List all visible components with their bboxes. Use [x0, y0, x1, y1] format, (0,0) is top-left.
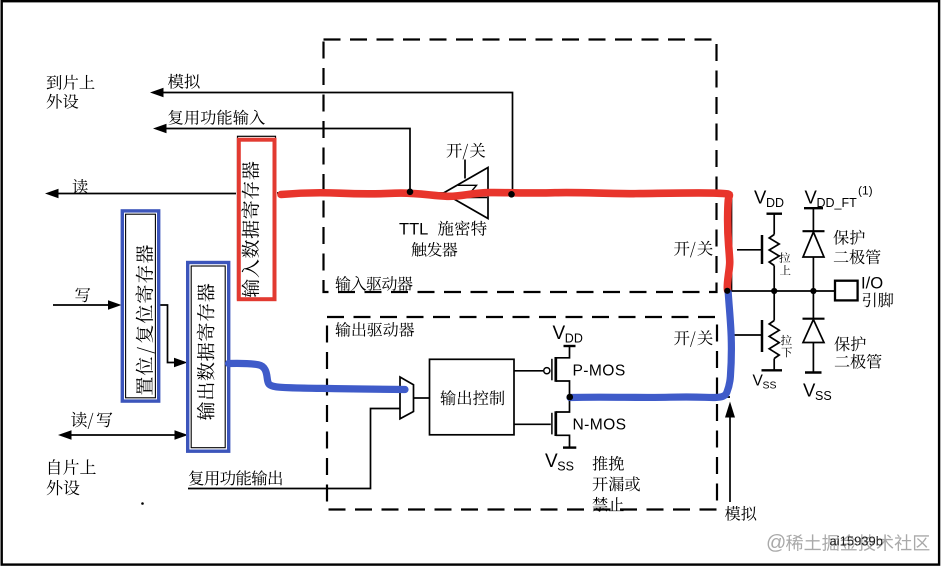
wire alternate function input 复用功能输入 [153, 124, 410, 192]
wire mos drains to pad [570, 396, 730, 398]
watermark 稀土掘金技术社区 [766, 532, 929, 554]
transistor N-MOS [552, 397, 576, 448]
label 到片上外设 [47, 75, 95, 109]
label I/O 引脚 [861, 274, 893, 308]
label 开/关 (trigger switch) [447, 143, 486, 160]
svg-text:DD_FT: DD_FT [817, 196, 858, 210]
blue highlight marker output path (mos to pad) [570, 293, 731, 398]
svg-text:SS: SS [763, 380, 777, 392]
stray dot [141, 502, 144, 505]
node pad junction (red/blue meet) [724, 288, 730, 294]
label 读/写 [71, 412, 112, 429]
label VSS (pull-down) [753, 373, 777, 392]
I/O pin pad square [835, 281, 858, 301]
label 开/关 (pull-down switch) [674, 330, 713, 347]
node AF-input tap junction [407, 189, 414, 196]
output driver dashed box 输出驱动器 [327, 317, 717, 510]
protection diode D1 (to VDD_FT) [803, 208, 825, 291]
transistor P-MOS [544, 346, 576, 397]
wire write 写 [53, 300, 122, 310]
input main wire pad to schmitt to register [277, 193, 732, 291]
label 开/关 (pull-up switch) [674, 241, 713, 258]
label VSS (lower diode) [803, 380, 832, 404]
label 保护二极管 (lower) [834, 336, 881, 369]
wire alternate function output 复用功能输出 [188, 409, 400, 489]
wire output control to P-MOS gate [514, 370, 543, 372]
svg-text:DD: DD [565, 332, 583, 346]
label 保护二极管 (upper) [833, 230, 880, 265]
label 拉上 [779, 252, 790, 274]
label 输出驱动器 [335, 322, 414, 337]
label 复用功能输入 [168, 110, 265, 125]
svg-text:I/O: I/O [861, 274, 883, 293]
label VDD (P-MOS) [553, 323, 583, 346]
label VDD (pull-up) [754, 187, 784, 211]
pull-down resistor with switch 拉下 [731, 291, 782, 370]
node diode junction [810, 288, 816, 294]
label 读 [73, 179, 88, 194]
wire analog bottom 模拟 with up arrow [725, 402, 735, 503]
svg-text:ai15939b: ai15939b [830, 534, 884, 549]
label VDD_FT (1) [805, 184, 873, 211]
wire analog-out to peripherals 模拟 [150, 88, 513, 192]
label TTL 施密特触发器 [399, 221, 487, 257]
svg-text:P-MOS: P-MOS [573, 363, 626, 380]
input driver dashed box 输入驱动器 [324, 40, 717, 293]
label 写 [75, 288, 90, 303]
TTL schmitt trigger U1 [444, 160, 489, 219]
pull-up resistor with switch 拉上 [737, 214, 782, 291]
label VSS (N-MOS) [545, 451, 574, 474]
wire read 读 [45, 189, 236, 199]
svg-text:@: @ [766, 532, 786, 554]
wire read/write 读/写 [58, 430, 188, 440]
red highlight marker input path [281, 193, 730, 291]
label 模拟 (top) [168, 74, 200, 89]
label 输入驱动器 [335, 276, 412, 291]
label 自片上外设 [47, 459, 96, 495]
wire pad line to I/O pin [727, 290, 835, 292]
register box 置位/复位寄存器 (bit set/reset register) [122, 211, 158, 401]
label 输出控制 [440, 390, 504, 405]
svg-text:V: V [545, 451, 558, 472]
protection diode D2 (to VSS) [803, 291, 825, 373]
wire mux to output control [414, 397, 430, 399]
label 模拟 (bottom) [725, 506, 756, 521]
svg-text:DD: DD [766, 196, 784, 210]
wire output control to N-MOS gate [514, 423, 551, 425]
wire bit-set-reset to output register [160, 305, 188, 367]
blue highlight marker output path (register to mux) [229, 363, 406, 389]
node mos drain junction [567, 394, 574, 401]
svg-text:V: V [553, 323, 566, 344]
svg-text:(1): (1) [858, 184, 873, 198]
label 推挽开漏或禁止 [593, 456, 640, 512]
svg-text:SS: SS [557, 460, 574, 474]
mux (alternate function select) [400, 377, 414, 419]
node analog tap junction [508, 191, 515, 198]
register box 输入数据寄存器 (input data register) [238, 136, 276, 299]
output control box 输出控制 [430, 359, 515, 435]
svg-text:N-MOS: N-MOS [573, 417, 627, 434]
svg-text:TTL: TTL [399, 221, 428, 239]
register box 输出数据寄存器 (output data register) [188, 263, 229, 452]
node pull resistor junction [771, 288, 777, 294]
svg-text:SS: SS [815, 389, 832, 403]
label 拉下 [781, 335, 792, 358]
label 复用功能输出 [189, 470, 282, 485]
